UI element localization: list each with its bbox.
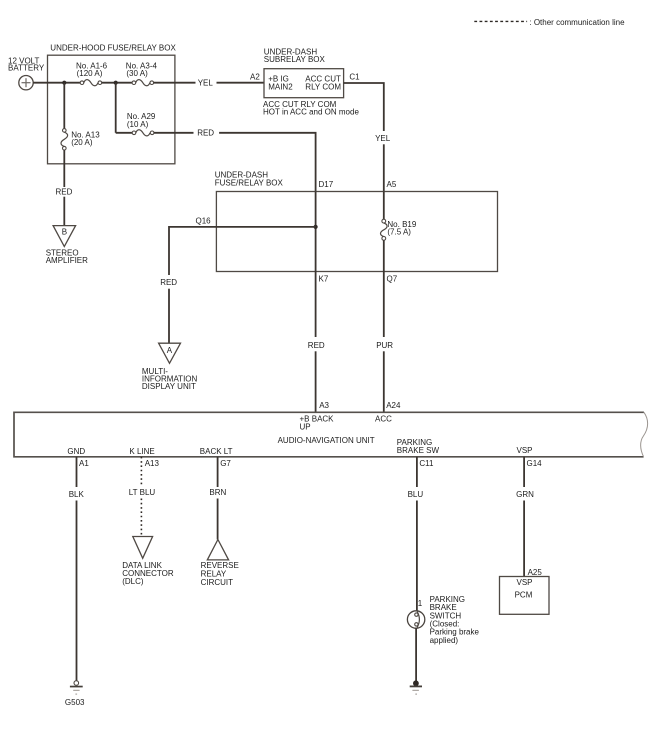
fuse B19 (7.5 A) <box>381 192 388 272</box>
wire C11 PARKING BRAKE SW down <box>416 457 418 487</box>
ground parking brake switch <box>410 680 422 694</box>
fuse A3-4 (30 A) <box>132 80 154 86</box>
svg-text:GND: GND <box>67 447 85 456</box>
svg-text:(30 A): (30 A) <box>126 69 148 78</box>
wire G7 BACK LT down <box>217 457 219 487</box>
fuse A1-6 (120 A) <box>80 80 102 86</box>
wire Q7 down to PUR label <box>383 272 385 338</box>
connector arrow B <box>53 226 76 247</box>
wire YEL to subrelay box <box>217 82 265 84</box>
svg-text:C1: C1 <box>349 72 360 81</box>
svg-text:A: A <box>167 346 173 355</box>
under-dash fuse/relay box <box>216 192 497 272</box>
wire BLK down to ground <box>76 501 78 681</box>
svg-text:(7.5 A): (7.5 A) <box>387 227 411 236</box>
wire battery to fuse A1-6 <box>33 82 80 84</box>
svg-text:(DLC): (DLC) <box>122 577 144 586</box>
svg-text:BRAKE SW: BRAKE SW <box>397 446 440 455</box>
ground G503 <box>70 681 83 695</box>
wire fuse A29 to RED label <box>154 132 194 134</box>
svg-text:RED: RED <box>308 341 325 350</box>
node junction J1 <box>62 81 66 85</box>
wire GRN down to PCM <box>523 501 525 577</box>
svg-text:BLK: BLK <box>69 490 85 499</box>
legend dashed line <box>474 20 527 22</box>
svg-text:A24: A24 <box>386 401 401 410</box>
svg-text:G503: G503 <box>65 698 85 707</box>
wire K7 down to RED label <box>315 272 317 338</box>
svg-text:YEL: YEL <box>198 78 214 87</box>
svg-text:BACK LT: BACK LT <box>200 447 233 456</box>
svg-text:A1: A1 <box>79 459 89 468</box>
svg-text:DISPLAY UNIT: DISPLAY UNIT <box>142 382 196 391</box>
wire switch to ground <box>415 628 417 681</box>
svg-text:K7: K7 <box>319 274 329 283</box>
svg-text:PUR: PUR <box>376 341 393 350</box>
wire YEL down to A5 <box>383 144 385 191</box>
svg-text:GRN: GRN <box>516 490 534 499</box>
svg-text:Q7: Q7 <box>387 274 398 283</box>
audio-navigation unit box <box>14 412 648 457</box>
svg-text:(120 A): (120 A) <box>77 69 103 78</box>
wire fuse A3-4 to YEL label <box>154 82 196 84</box>
under-hood fuse/relay box <box>48 55 175 164</box>
svg-text:ACC: ACC <box>375 415 392 424</box>
svg-text:BRN: BRN <box>209 488 226 497</box>
wire A13 K-line dotted upper <box>140 457 142 486</box>
wire RED to stereo amplifier triangle <box>63 197 65 226</box>
svg-text:BATTERY: BATTERY <box>8 64 45 73</box>
node junction J4 <box>314 225 318 229</box>
parking brake switch S1 <box>407 611 424 628</box>
svg-text:B: B <box>62 228 67 237</box>
wire BRN down to reverse relay <box>217 499 219 540</box>
svg-text:: Other communication line: : Other communication line <box>529 18 625 27</box>
wire A1 GND down <box>76 457 78 487</box>
connector arrow reverse relay <box>207 540 228 560</box>
svg-text:1: 1 <box>418 599 423 608</box>
svg-text:AMPLIFIER: AMPLIFIER <box>46 256 88 265</box>
svg-text:RED: RED <box>197 128 214 137</box>
svg-text:AUDIO-NAVIGATION UNIT: AUDIO-NAVIGATION UNIT <box>278 436 375 445</box>
wire to fuse A29 <box>116 132 132 134</box>
wire subrelay box to YEL vertical <box>344 83 384 131</box>
svg-text:A3: A3 <box>319 401 329 410</box>
svg-text:A2: A2 <box>250 72 260 81</box>
connector arrow A <box>159 343 181 363</box>
svg-text:applied): applied) <box>430 636 459 645</box>
wire BLU down to switch <box>416 501 418 611</box>
svg-text:BLU: BLU <box>408 490 424 499</box>
connector arrow DLC <box>133 537 153 559</box>
svg-text:CIRCUIT: CIRCUIT <box>201 578 234 587</box>
wire PUR down to A24 <box>383 351 385 412</box>
svg-text:A5: A5 <box>387 180 397 189</box>
svg-text:FUSE/RELAY BOX: FUSE/RELAY BOX <box>215 178 284 187</box>
wire Q16 branch <box>169 227 316 275</box>
svg-text:SUBRELAY BOX: SUBRELAY BOX <box>264 55 326 64</box>
battery B1 symbol <box>19 76 33 90</box>
node junction J2 <box>114 81 118 85</box>
svg-text:G7: G7 <box>220 459 231 468</box>
svg-text:HOT in ACC and ON mode: HOT in ACC and ON mode <box>263 107 359 116</box>
svg-text:UP: UP <box>300 422 311 431</box>
wire fuse A13 down to RED label <box>63 150 65 187</box>
PCM box <box>500 577 550 615</box>
svg-text:UNDER-HOOD FUSE/RELAY BOX: UNDER-HOOD FUSE/RELAY BOX <box>50 44 176 53</box>
svg-text:G14: G14 <box>527 459 543 468</box>
svg-text:RLY COM: RLY COM <box>305 83 341 92</box>
svg-text:YEL: YEL <box>375 134 391 143</box>
svg-text:C11: C11 <box>419 459 434 468</box>
svg-text:RED: RED <box>160 278 177 287</box>
wire G14 VSP down <box>523 457 525 487</box>
svg-text:(20 A): (20 A) <box>71 138 93 147</box>
svg-text:LT BLU: LT BLU <box>129 488 156 497</box>
wire junction J2 down to A29 row <box>115 83 117 133</box>
fuse A29 (10 A) <box>132 130 154 136</box>
fuse A13 (20 A) <box>61 129 68 150</box>
svg-text:A13: A13 <box>145 459 160 468</box>
wire D17 through box down <box>315 192 317 272</box>
svg-text:PCM: PCM <box>515 591 533 600</box>
svg-text:D17: D17 <box>319 180 334 189</box>
wire RED down to multi-information triangle <box>168 289 170 344</box>
svg-text:K LINE: K LINE <box>129 447 154 456</box>
svg-text:VSP: VSP <box>517 578 533 587</box>
wire fuse A1-6 to fuse A3-4 <box>102 82 132 84</box>
wire RED to D17 vertical <box>219 133 316 192</box>
svg-text:VSP: VSP <box>517 446 533 455</box>
svg-text:RED: RED <box>56 187 73 196</box>
wire junction J1 down to fuse A13 <box>63 83 65 129</box>
svg-text:(10 A): (10 A) <box>127 120 149 129</box>
wire RED down to A3 <box>315 351 317 412</box>
wire K-line dotted lower <box>140 499 142 537</box>
svg-text:Q16: Q16 <box>196 216 212 225</box>
under-dash subrelay box <box>264 69 344 98</box>
svg-text:MAIN2: MAIN2 <box>268 83 293 92</box>
